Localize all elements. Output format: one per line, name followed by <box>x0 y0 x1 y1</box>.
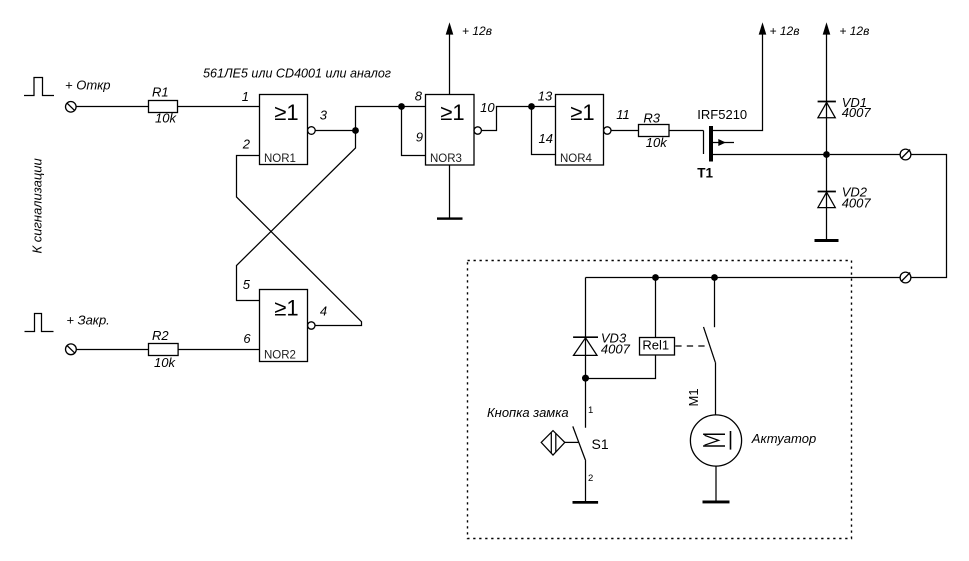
svg-text:М1: М1 <box>686 388 701 406</box>
svg-text:+ 12в: + 12в <box>770 24 800 38</box>
svg-text:4007: 4007 <box>842 195 872 210</box>
svg-text:R2: R2 <box>152 328 169 343</box>
svg-text:R3: R3 <box>643 110 660 125</box>
svg-text:T1: T1 <box>697 166 713 181</box>
svg-text:+ Закр.: + Закр. <box>66 313 109 328</box>
svg-text:6: 6 <box>243 331 251 346</box>
svg-text:NOR2: NOR2 <box>264 349 296 361</box>
svg-text:NOR3: NOR3 <box>430 153 462 165</box>
svg-text:IRF5210: IRF5210 <box>697 107 747 122</box>
svg-text:R1: R1 <box>152 85 169 100</box>
svg-text:10k: 10k <box>154 355 176 370</box>
svg-text:10k: 10k <box>155 111 177 126</box>
svg-text:4: 4 <box>320 303 327 318</box>
svg-text:≥1: ≥1 <box>440 100 464 125</box>
svg-text:1: 1 <box>588 405 593 416</box>
svg-text:≥1: ≥1 <box>570 100 594 125</box>
svg-text:11: 11 <box>616 107 630 122</box>
svg-text:≥1: ≥1 <box>274 100 298 125</box>
svg-text:2: 2 <box>588 473 593 484</box>
svg-text:3: 3 <box>320 108 328 123</box>
svg-text:9: 9 <box>416 129 423 144</box>
svg-text:10: 10 <box>480 100 495 115</box>
svg-text:NOR4: NOR4 <box>560 153 593 165</box>
svg-text:5: 5 <box>243 277 251 292</box>
svg-text:К сигнализации: К сигнализации <box>30 158 45 253</box>
svg-text:1: 1 <box>242 89 249 104</box>
svg-text:10k: 10k <box>646 135 668 150</box>
svg-text:2: 2 <box>242 137 251 152</box>
svg-text:Кнопка замка: Кнопка замка <box>487 405 569 420</box>
svg-text:Актуатор: Актуатор <box>751 431 816 446</box>
svg-text:+ 12в: + 12в <box>462 24 492 38</box>
svg-text:4007: 4007 <box>601 341 631 356</box>
svg-text:+ 12в: + 12в <box>839 24 869 38</box>
svg-text:+ Откр: + Откр <box>65 78 111 93</box>
svg-text:4007: 4007 <box>842 105 872 120</box>
svg-text:14: 14 <box>539 131 553 146</box>
svg-text:≥1: ≥1 <box>274 296 298 321</box>
svg-text:Rel1: Rel1 <box>642 337 669 352</box>
svg-text:NOR1: NOR1 <box>264 153 296 165</box>
svg-text:8: 8 <box>415 88 423 103</box>
svg-text:561ЛЕ5 или CD4001 или аналог: 561ЛЕ5 или CD4001 или аналог <box>203 66 392 81</box>
svg-text:13: 13 <box>538 88 553 103</box>
svg-text:S1: S1 <box>592 436 609 452</box>
